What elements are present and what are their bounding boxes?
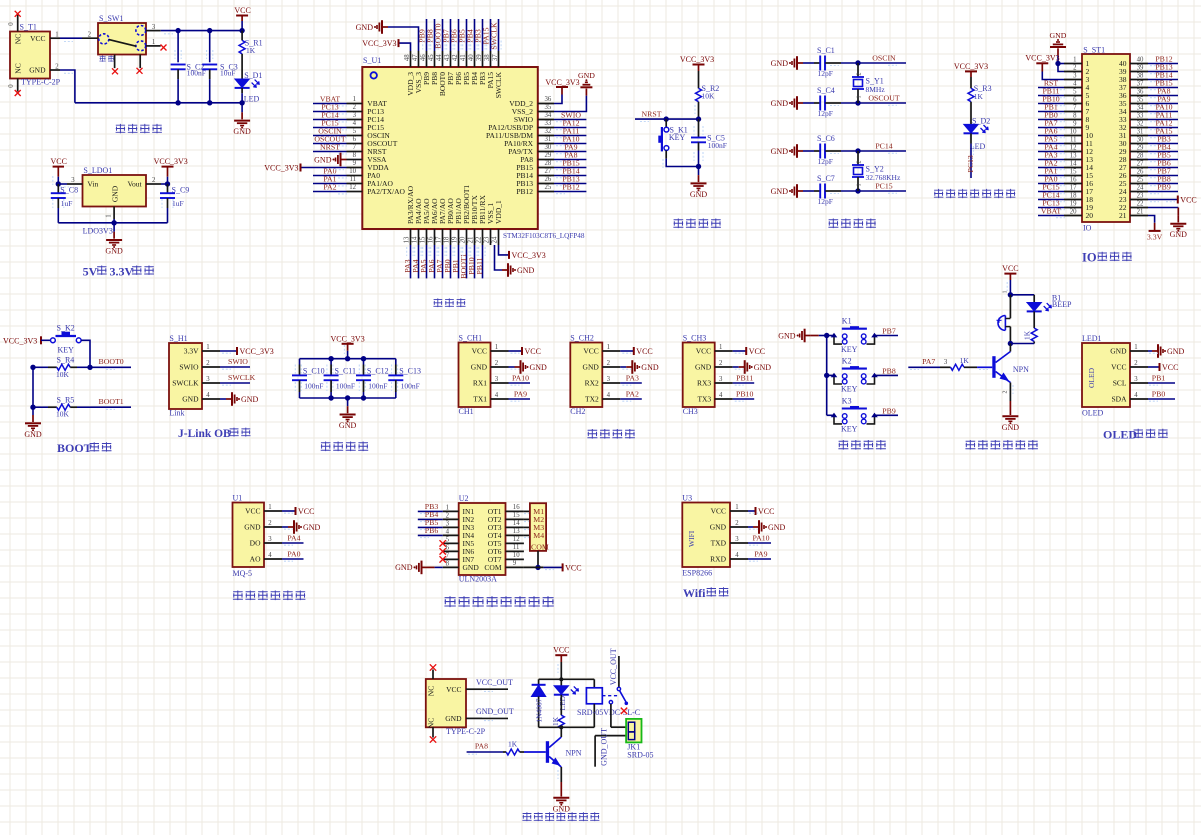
ground GND at U1 pin 47 VSS_3 xyxy=(356,20,419,51)
header S_H1 (J-Link) xyxy=(169,334,202,418)
svg-text:46: 46 xyxy=(420,54,427,61)
net label PB5 wire (U2) xyxy=(418,518,443,530)
capacitor S_C10 100nF xyxy=(292,359,325,398)
svg-text:3: 3 xyxy=(735,536,739,543)
svg-text:4: 4 xyxy=(1134,392,1138,399)
svg-text:PB0: PB0 xyxy=(1152,389,1166,398)
no-connect X marks under S_SW1 xyxy=(112,68,143,75)
net label PB6 wire xyxy=(450,19,462,51)
U1 pin 43 PB7 xyxy=(444,51,455,85)
svg-text:3: 3 xyxy=(719,376,723,383)
title chuankou dianlu xyxy=(587,429,635,439)
U2 pin 4 IN4 xyxy=(443,528,459,535)
power VCC_3V3 at U1 pin 48 VDD_3 xyxy=(362,39,410,51)
svg-text:12pF: 12pF xyxy=(818,197,833,206)
svg-text:VCC: VCC xyxy=(234,6,250,15)
key K2 xyxy=(827,357,877,394)
svg-text:9: 9 xyxy=(1073,121,1077,128)
S_CH3 pin1 to VCC xyxy=(715,344,765,356)
net label PB0 wire (IO left) xyxy=(1038,111,1065,122)
svg-text:24: 24 xyxy=(1137,185,1144,192)
svg-text:GND: GND xyxy=(1167,347,1185,356)
title zhuxinpian xyxy=(433,298,465,307)
svg-text:KEY: KEY xyxy=(669,133,686,142)
net label PB11 wire (IO left) xyxy=(1038,87,1065,98)
svg-text:GND: GND xyxy=(1170,230,1188,239)
svg-text:BOOT0: BOOT0 xyxy=(99,357,124,366)
wire K2 to BOOT0 node xyxy=(81,340,93,370)
power port VCC (alarm) xyxy=(1002,264,1018,295)
svg-text:PA10: PA10 xyxy=(512,373,529,382)
svg-text:16: 16 xyxy=(1070,177,1077,184)
U2 pin 12 OT5 xyxy=(506,536,524,543)
LED of alarm xyxy=(1027,295,1052,312)
svg-text:3: 3 xyxy=(1073,73,1077,80)
net label PC15 wire (IO left) xyxy=(1038,183,1065,194)
wire U2 COM pin to VCC xyxy=(524,563,582,572)
svg-text:S_C8: S_C8 xyxy=(60,185,78,194)
svg-text:48: 48 xyxy=(404,54,411,61)
U1 pin 16 PA6/AO xyxy=(427,198,439,245)
S_ST1 pin 8 left xyxy=(1064,113,1090,125)
svg-text:VCC: VCC xyxy=(298,507,314,516)
ground GND (BOOT) xyxy=(24,407,42,439)
S_ST1 pin 9 left xyxy=(1064,121,1090,133)
svg-text:U3: U3 xyxy=(682,494,692,503)
svg-text:1: 1 xyxy=(1003,291,1009,294)
resistor S_R2 10K xyxy=(695,71,719,119)
power VCC_3V3 at U1 pin 24 VDD_1 xyxy=(499,245,546,260)
svg-text:PA4: PA4 xyxy=(287,533,300,542)
net label PB13 wire (IO right) xyxy=(1148,63,1178,74)
svg-text:3: 3 xyxy=(353,112,357,119)
svg-text:TX2: TX2 xyxy=(585,395,599,404)
S_ST1 pin 4 left xyxy=(1064,81,1090,93)
U2 pin 1 IN1 xyxy=(443,504,459,511)
U1 pin 17 PA7/AO xyxy=(435,198,447,245)
svg-text:3: 3 xyxy=(1134,376,1138,383)
svg-text:NC: NC xyxy=(14,34,23,44)
ground GND (reset) xyxy=(690,167,708,199)
U1 pin 3 PC14 xyxy=(347,112,385,124)
net label OSCIN wire xyxy=(313,127,347,138)
relay emitter wire to GND xyxy=(553,767,571,813)
U1 pin 8 VSSA xyxy=(347,152,388,164)
connector S_T1 (TYPE-C-2P) xyxy=(10,23,61,87)
svg-text:VCC_3V3: VCC_3V3 xyxy=(954,62,988,71)
svg-text:LED: LED xyxy=(558,695,567,710)
U1 pin 19 PB1/AO xyxy=(451,198,463,245)
svg-text:2: 2 xyxy=(1002,391,1008,394)
svg-text:S_C12: S_C12 xyxy=(367,366,389,375)
svg-text:S_CH1: S_CH1 xyxy=(459,334,483,343)
relay contact linkage dashed xyxy=(602,695,617,697)
wire OT3 to motor connector xyxy=(524,527,533,529)
svg-text:GND: GND xyxy=(24,430,42,439)
svg-text:GND: GND xyxy=(244,523,261,532)
junction LDO input xyxy=(56,181,61,186)
U2 pin 15 OT2 xyxy=(506,512,524,519)
net label PA6 wire xyxy=(427,245,437,278)
svg-text:25: 25 xyxy=(545,184,552,191)
svg-text:S_T1: S_T1 xyxy=(20,23,37,32)
title OLED display xyxy=(1103,428,1168,442)
svg-text:18: 18 xyxy=(1070,193,1077,200)
svg-text:GND: GND xyxy=(710,523,727,532)
title anjian dianlu xyxy=(838,440,886,450)
svg-text:1: 1 xyxy=(55,32,58,39)
pin 2 of S_LDO1 xyxy=(146,177,161,184)
S_ST1 pin 36 right xyxy=(1119,89,1148,101)
LED1 pin3 net PB1 xyxy=(1130,373,1175,385)
junction below C5 xyxy=(696,164,701,169)
svg-text:U1: U1 xyxy=(233,494,243,503)
net label PA12 wire (IO right) xyxy=(1148,119,1178,130)
net label PA15 wire (IO right) xyxy=(1148,127,1178,138)
svg-text:38: 38 xyxy=(484,54,491,61)
S_ST1 pin 14 left xyxy=(1064,161,1093,173)
svg-text:PB11: PB11 xyxy=(736,373,753,382)
title IO expansion xyxy=(1082,251,1132,265)
svg-text:GND: GND xyxy=(778,331,796,340)
net label PC15 wire xyxy=(313,119,347,130)
svg-text:2: 2 xyxy=(1134,360,1138,367)
svg-text:NRST: NRST xyxy=(642,110,662,119)
svg-text:31: 31 xyxy=(1137,129,1144,136)
svg-text:RX2: RX2 xyxy=(585,379,599,388)
S_ST1 pin 18 left xyxy=(1064,193,1093,205)
svg-text:1: 1 xyxy=(735,504,738,511)
svg-text:16: 16 xyxy=(427,236,434,243)
no-connect X on U2 pin 7 xyxy=(440,556,446,562)
no-connect X bottom S_T1 xyxy=(15,90,21,96)
svg-text:LDO3V3: LDO3V3 xyxy=(83,227,113,236)
U1 pin 26 PB13 xyxy=(516,176,554,188)
ground GND at U1 pin 23 VSS_1 xyxy=(495,245,535,277)
svg-text:S_H1: S_H1 xyxy=(169,334,187,343)
wire GND_OUT to JK1 pin2 xyxy=(595,728,626,767)
net label PB14 wire (IO right) xyxy=(1148,71,1178,82)
svg-text:KEY: KEY xyxy=(58,346,75,355)
svg-text:GND: GND xyxy=(695,363,712,372)
net label PB3 wire (U2) xyxy=(418,502,443,514)
svg-text:VCC: VCC xyxy=(1162,363,1178,372)
svg-text:33: 33 xyxy=(1137,113,1144,120)
U2 pin 14 OT3 xyxy=(506,520,524,527)
alarm bottom rail xyxy=(1008,341,1034,346)
U2 pin 13 OT4 xyxy=(506,528,524,535)
svg-text:VCC: VCC xyxy=(583,347,598,356)
svg-text:GND: GND xyxy=(395,563,413,572)
net label OSCOUT wire xyxy=(313,135,347,146)
svg-text:GND: GND xyxy=(314,155,332,164)
bottom pins of S_SW1 xyxy=(115,55,141,69)
net label PB15 wire xyxy=(554,158,586,169)
U1 pin3 net PA4 xyxy=(264,533,304,545)
wire to LDO pin 3 xyxy=(53,176,69,187)
svg-text:2: 2 xyxy=(1073,65,1077,72)
LED (relay) xyxy=(554,679,579,710)
svg-text:30: 30 xyxy=(545,144,552,151)
svg-text:PB11: PB11 xyxy=(475,257,484,274)
svg-text:4: 4 xyxy=(1073,81,1077,88)
power port VCC (relay) xyxy=(553,645,569,679)
U2 pin 7 IN7 xyxy=(443,552,459,559)
net label PA5 wire (IO left) xyxy=(1038,135,1065,146)
net label PB1 wire (IO left) xyxy=(1038,103,1065,114)
svg-text:TX1: TX1 xyxy=(473,395,487,404)
svg-text:40: 40 xyxy=(1137,57,1144,64)
regulator S_LDO1 (LDO3V3) xyxy=(83,166,147,236)
no-connect X on U2 pin 6 xyxy=(440,548,446,554)
svg-text:1: 1 xyxy=(857,96,863,99)
U2 pin 16 OT1 xyxy=(506,504,524,511)
svg-text:AO: AO xyxy=(250,555,261,564)
svg-text:VCC_OUT: VCC_OUT xyxy=(476,678,513,687)
svg-text:35: 35 xyxy=(1137,97,1144,104)
pin 1 VCC of S_T1 xyxy=(50,32,60,39)
net label PB12 wire (IO right) xyxy=(1148,55,1178,66)
svg-text:4: 4 xyxy=(206,392,210,399)
net label NRST wire xyxy=(313,143,347,154)
svg-text:43: 43 xyxy=(444,54,451,61)
svg-text:30: 30 xyxy=(1137,137,1144,144)
gas sensor U1 MQ-5 xyxy=(233,494,265,578)
svg-text:1: 1 xyxy=(495,344,498,351)
title relay control circuit xyxy=(522,812,599,821)
svg-text:NPN: NPN xyxy=(1013,365,1029,374)
svg-text:VCC: VCC xyxy=(525,347,541,356)
capacitor S_C1 12pF xyxy=(803,46,858,78)
svg-text:J-Link OB: J-Link OB xyxy=(178,428,231,440)
S_ST1 pin 3 left xyxy=(1064,73,1090,85)
svg-text:S_C9: S_C9 xyxy=(172,185,190,194)
net label PA2 wire xyxy=(313,183,347,194)
resistor 1K (relay LED) xyxy=(551,695,565,729)
svg-text:S_SW1: S_SW1 xyxy=(99,14,123,23)
S_CH1 pin1 to VCC xyxy=(491,344,541,356)
svg-text:20: 20 xyxy=(1086,211,1094,220)
svg-text:36: 36 xyxy=(545,96,552,103)
svg-text:1: 1 xyxy=(719,344,722,351)
U1 pin 6 OSCOUT xyxy=(347,136,398,148)
capacitor S_C9 1uF xyxy=(160,184,189,223)
alarm top rail xyxy=(1003,291,1035,298)
net label PA8 wire (IO right) xyxy=(1148,87,1178,98)
resistor S_R1 1K xyxy=(239,31,262,71)
svg-text:22: 22 xyxy=(475,236,482,243)
svg-text:4: 4 xyxy=(495,392,499,399)
svg-text:KEY: KEY xyxy=(841,425,858,434)
net label PB5 wire (IO right) xyxy=(1148,151,1178,162)
S_CH1 pin4 net PA9 xyxy=(491,389,531,401)
U1 pin 18 PB0/AO xyxy=(443,198,455,245)
S_H1 pin 4 GND xyxy=(182,392,220,404)
svg-text:26: 26 xyxy=(545,176,552,183)
svg-text:12: 12 xyxy=(349,184,356,191)
svg-text:GND: GND xyxy=(303,523,321,532)
S_ST1 pin 27 right xyxy=(1119,161,1148,173)
capacitor S_C2 100nF xyxy=(171,31,206,103)
ground GND at U1 pin 35 VSS_2 xyxy=(554,71,595,111)
svg-text:2: 2 xyxy=(88,31,92,38)
U1 pin 40 PB4 xyxy=(468,51,479,85)
svg-text:10: 10 xyxy=(349,168,356,175)
ground GND of LDO block xyxy=(105,223,123,256)
U1 pin 35 VSS_2 xyxy=(512,104,554,116)
svg-text:VCC: VCC xyxy=(553,645,569,654)
U1 pin 39 PB3 xyxy=(476,51,487,85)
svg-text:8: 8 xyxy=(1073,113,1077,120)
svg-text:VCC: VCC xyxy=(1002,264,1018,273)
svg-text:5: 5 xyxy=(353,128,357,135)
svg-text:S_C1: S_C1 xyxy=(817,46,835,55)
svg-text:2: 2 xyxy=(446,512,450,519)
capacitor S_C12 100nF xyxy=(356,359,389,398)
S_H1 pin 2 SWIO xyxy=(179,360,220,372)
ground GND at U1 pin 8 VSSA xyxy=(314,153,346,167)
U1 pin 23 VSS_1 xyxy=(483,202,495,245)
svg-text:S_LDO1: S_LDO1 xyxy=(83,166,112,175)
S_CH2 pin1 to VCC xyxy=(602,344,652,356)
svg-text:100nF: 100nF xyxy=(336,382,355,391)
svg-text:2: 2 xyxy=(206,360,210,367)
svg-text:5V: 5V xyxy=(83,264,98,278)
svg-text:3.3V: 3.3V xyxy=(184,347,199,356)
net label PA7 wire xyxy=(435,245,445,278)
net label PB10 wire (IO left) xyxy=(1038,95,1065,106)
svg-text:PB12: PB12 xyxy=(562,182,579,191)
U1 pin 41 PB5 xyxy=(460,51,471,85)
S_ST1 pin 5 left xyxy=(1064,89,1090,101)
svg-text:18: 18 xyxy=(443,236,450,243)
S_ST1 pin 30 right xyxy=(1119,137,1148,149)
svg-text:9: 9 xyxy=(513,560,517,567)
net label PB15 wire (IO right) xyxy=(1148,79,1178,90)
S_ST1 pin 40 right xyxy=(1119,57,1148,69)
svg-text:VCC_3V3: VCC_3V3 xyxy=(1025,54,1059,63)
svg-text:GND: GND xyxy=(771,99,789,108)
alarm emitter wire to GND xyxy=(1002,383,1020,432)
U1 pin 27 PB14 xyxy=(516,168,554,180)
svg-text:GND: GND xyxy=(182,395,199,404)
svg-text:21: 21 xyxy=(467,237,474,244)
svg-text:VCC: VCC xyxy=(749,347,765,356)
svg-text:CH1: CH1 xyxy=(459,407,474,416)
U1 pin 44 BOOT0 xyxy=(436,51,447,96)
net label PB8 wire xyxy=(426,19,438,51)
wifi module U3 ESP8266 xyxy=(682,494,730,578)
driver U2 ULN2003A xyxy=(459,494,506,584)
relay coil SRD-05VDC-SL-C xyxy=(577,679,640,727)
svg-text:S_ST1: S_ST1 xyxy=(1083,45,1105,54)
U1 pin 21 PB10/TX xyxy=(467,195,479,245)
S_ST1 pin 10 left xyxy=(1064,129,1093,141)
svg-text:3: 3 xyxy=(446,520,450,527)
svg-text:2: 2 xyxy=(55,63,59,70)
svg-text:S_C11: S_C11 xyxy=(335,366,357,375)
svg-text:GND: GND xyxy=(553,804,571,813)
svg-text:SCL: SCL xyxy=(1113,379,1127,388)
power VCC_3V3 at U1 pin 9 VDDA xyxy=(264,163,346,172)
svg-text:OLED: OLED xyxy=(1103,428,1137,442)
svg-text:VCC_OUT: VCC_OUT xyxy=(609,648,618,685)
svg-text:VCC: VCC xyxy=(50,157,66,166)
net label PA11 wire xyxy=(554,126,586,137)
net label PB13 wire xyxy=(554,174,586,185)
svg-text:1: 1 xyxy=(446,504,449,511)
svg-text:VCC: VCC xyxy=(565,563,581,572)
net label PC13 wire (indicator) xyxy=(966,144,975,178)
net label BOOT1 wire xyxy=(459,245,469,279)
resistor S_R5 10K xyxy=(33,396,90,419)
net label PC14 wire (IO left) xyxy=(1038,191,1065,202)
svg-text:GND: GND xyxy=(1050,31,1067,40)
svg-text:32.768KHz: 32.768KHz xyxy=(866,173,901,182)
svg-text:VCC: VCC xyxy=(446,685,461,694)
capacitor S_C8 1uF xyxy=(51,184,78,223)
no-connect X on S_SW1 pin 1 xyxy=(161,45,167,51)
svg-text:VCC: VCC xyxy=(1180,195,1196,204)
net label SWIO wire xyxy=(554,110,586,121)
svg-text:PB10: PB10 xyxy=(736,389,753,398)
U1 pin 48 VDD_3 xyxy=(404,51,415,96)
ground GND at IO pin 22 xyxy=(1148,208,1187,240)
svg-text:3: 3 xyxy=(607,376,611,383)
ground GND (filter) xyxy=(339,398,357,430)
svg-text:4: 4 xyxy=(735,552,739,559)
svg-text:MQ-5: MQ-5 xyxy=(233,569,253,578)
net label PA12 wire xyxy=(554,118,586,129)
net label PA8 wire xyxy=(554,150,586,161)
power VCC_3V3 at S_H1 pin1 xyxy=(220,347,274,356)
svg-text:Wifi: Wifi xyxy=(683,586,706,600)
svg-text:0: 0 xyxy=(8,84,15,88)
net label PB9 wire (IO right) xyxy=(1148,183,1178,194)
svg-text:ESP8266: ESP8266 xyxy=(682,568,712,577)
filter top rail xyxy=(300,356,396,361)
svg-text:35: 35 xyxy=(545,104,552,111)
net label PA11 wire (IO right) xyxy=(1148,111,1178,122)
svg-text:PB9: PB9 xyxy=(1157,183,1171,192)
svg-text:VCC: VCC xyxy=(636,347,652,356)
svg-text:VCC: VCC xyxy=(758,507,774,516)
svg-text:S_C7: S_C7 xyxy=(817,174,835,183)
svg-text:VDD_1: VDD_1 xyxy=(494,200,503,224)
net label PB8 wire (IO right) xyxy=(1148,175,1178,186)
U2 pin 3 IN3 xyxy=(443,520,459,527)
capacitor S_C13 100nF xyxy=(388,359,421,398)
svg-text:15: 15 xyxy=(419,236,426,243)
svg-text:K1: K1 xyxy=(842,317,852,326)
svg-text:VCC_3V3: VCC_3V3 xyxy=(264,163,298,172)
svg-text:SWCLK: SWCLK xyxy=(228,373,256,382)
svg-text:GND: GND xyxy=(771,187,789,196)
net label PB5 wire xyxy=(458,19,470,51)
title fuwei dianlu xyxy=(673,219,721,229)
S_ST1 pin 28 right xyxy=(1119,153,1148,165)
svg-text:PA9: PA9 xyxy=(514,389,527,398)
svg-text:LED: LED xyxy=(970,142,986,151)
svg-text:2: 2 xyxy=(353,104,357,111)
svg-text:4: 4 xyxy=(719,392,723,399)
svg-text:GND_OUT: GND_OUT xyxy=(600,728,609,766)
svg-text:23: 23 xyxy=(1137,193,1144,200)
svg-text:36: 36 xyxy=(1137,89,1144,96)
svg-text:33: 33 xyxy=(545,120,552,127)
svg-text:S_R4: S_R4 xyxy=(57,356,75,365)
net label VBAT wire (IO left) xyxy=(1038,207,1065,218)
